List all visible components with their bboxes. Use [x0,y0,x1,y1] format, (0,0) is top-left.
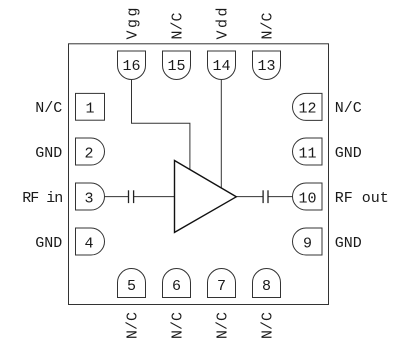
pin 2 [76,138,105,165]
svg-text:GND: GND [335,235,362,252]
output capacitor plate 1 [262,190,264,203]
svg-text:12: 12 [298,101,316,118]
pin 12 [293,93,323,120]
svg-text:Vgg: Vgg [124,5,141,40]
svg-text:11: 11 [298,146,316,163]
wire Vgg pin16 to amp top edge [132,79,190,170]
svg-text:N/C: N/C [335,100,362,117]
svg-text:N/C: N/C [259,312,276,339]
pin 7 [208,269,236,298]
pin 14 [208,51,236,80]
svg-text:N/C: N/C [35,100,62,117]
wire output capacitor to pin10 [268,196,292,198]
pin 1 square [76,93,105,120]
output capacitor plate 2 [267,190,269,203]
op-amp amplifier triangle [175,161,237,233]
svg-text:16: 16 [122,58,140,75]
svg-text:N/C: N/C [214,312,231,339]
pin 3 [76,183,105,210]
pin 9 [293,228,323,255]
svg-text:10: 10 [298,191,316,208]
pin 8 [253,269,281,298]
svg-text:3: 3 [84,191,93,208]
svg-text:13: 13 [257,58,275,75]
pin 15 [163,51,191,80]
pin 5 [118,269,146,298]
pin 16 [118,51,146,80]
svg-text:5: 5 [127,278,136,295]
pin 6 [163,269,191,298]
svg-text:9: 9 [303,236,312,253]
svg-text:4: 4 [84,236,93,253]
wire amp output to output capacitor [236,196,262,198]
svg-text:6: 6 [172,278,181,295]
svg-text:RF in: RF in [22,190,62,207]
wire input capacitor to amp input [134,196,175,198]
svg-text:1: 1 [85,101,94,118]
svg-text:2: 2 [84,146,93,163]
svg-text:7: 7 [217,278,226,295]
svg-text:N/C: N/C [259,12,276,39]
wire Vdd pin14 to amp top edge [220,79,222,189]
input capacitor plate 1 [128,190,130,203]
input capacitor plate 2 [133,190,135,203]
chip body outline [69,44,329,305]
svg-text:N/C: N/C [169,12,186,39]
pin 4 [76,228,105,255]
svg-text:N/C: N/C [124,312,141,339]
svg-text:Vdd: Vdd [214,5,231,40]
pin 13 [253,51,281,80]
svg-text:15: 15 [167,58,185,75]
svg-text:N/C: N/C [169,312,186,339]
svg-text:14: 14 [212,58,230,75]
svg-text:RF out: RF out [335,190,389,207]
pin 11 [293,138,323,165]
svg-text:GND: GND [35,235,62,252]
svg-text:GND: GND [335,145,362,162]
svg-text:8: 8 [262,278,271,295]
pin 10 [293,183,323,210]
wire pin3 to input capacitor [105,196,129,198]
svg-text:GND: GND [35,145,62,162]
